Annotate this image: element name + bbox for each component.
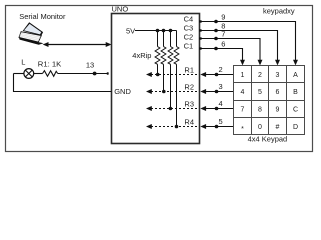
svg-text:UNO: UNO [112, 5, 129, 14]
svg-text:4x4 Keypad: 4x4 Keypad [248, 134, 288, 143]
svg-text:4: 4 [241, 89, 245, 96]
svg-text:#: # [276, 124, 280, 131]
wire: double arrow serial monitor to UNO [47, 44, 108, 46]
node R1 dashed row line [146, 65, 199, 77]
wire lamp to GND [14, 74, 112, 92]
svg-text:5: 5 [258, 89, 262, 96]
base lip [19, 38, 44, 45]
keyboard deck [19, 32, 41, 42]
wire keypad row 4 to R4 pin5 [200, 117, 233, 129]
wire resistor to pin 13 [58, 73, 109, 75]
svg-text:C1: C1 [184, 42, 194, 51]
resistor pack 4xRip: resistor 3 [168, 31, 173, 111]
UNO board box [112, 14, 200, 144]
svg-text:C3: C3 [184, 24, 194, 33]
svg-text:R2: R2 [184, 82, 194, 91]
svg-text:A: A [293, 72, 298, 79]
node R2 dashed row line [146, 82, 199, 94]
svg-text:C4: C4 [184, 15, 194, 24]
resistor pack 4xRip: resistor 1 [155, 31, 160, 77]
svg-text:3: 3 [219, 82, 223, 91]
junction dots on 5V rail [156, 29, 160, 33]
svg-text:R1: R1 [184, 65, 194, 74]
wire lamp to resistor [34, 73, 43, 75]
svg-text:6: 6 [221, 40, 225, 49]
svg-text:9: 9 [221, 13, 225, 22]
wire keypad row 1 to R1 pin2 [200, 65, 233, 77]
junction pin 13 [93, 72, 97, 76]
wire C1 pin6 to keypad column 1 [199, 40, 245, 66]
serial monitor laptop icon [19, 22, 44, 45]
svg-text:*: * [241, 126, 244, 133]
svg-text:keypadxy: keypadxy [263, 6, 295, 15]
svg-text:5V: 5V [126, 27, 135, 36]
wire C3 pin8 to keypad column 3 [199, 22, 280, 66]
svg-text:D: D [293, 124, 298, 131]
wire 5V rail [135, 30, 177, 32]
svg-text:7: 7 [241, 107, 245, 114]
svg-text:R1: 1K: R1: 1K [38, 60, 62, 69]
resistor R1 zigzag [43, 71, 58, 77]
svg-text:4: 4 [219, 99, 223, 108]
lid [23, 22, 43, 35]
wire lamp left [14, 73, 24, 75]
svg-text:Serial Monitor: Serial Monitor [19, 12, 66, 21]
wire keypad row 2 to R2 pin3 [200, 82, 233, 94]
svg-text:3: 3 [276, 72, 280, 79]
svg-text:8: 8 [258, 107, 262, 114]
svg-text:C2: C2 [184, 33, 194, 42]
svg-text:L: L [21, 58, 25, 67]
wire keypad row 3 to R3 pin4 [200, 99, 233, 111]
svg-text:B: B [293, 89, 298, 96]
wire C2 pin7 to keypad column 2 [199, 30, 263, 66]
resistor pack 4xRip: resistor 2 [161, 31, 166, 94]
svg-text:C: C [293, 107, 298, 114]
svg-text:7: 7 [221, 30, 225, 39]
svg-text:R3: R3 [184, 99, 194, 108]
svg-text:0: 0 [258, 124, 262, 131]
node R3 dashed row line [146, 99, 199, 111]
svg-text:2: 2 [258, 72, 262, 79]
border frame [6, 6, 313, 152]
svg-text:2: 2 [219, 65, 223, 74]
svg-text:5: 5 [219, 117, 223, 126]
lamp L [24, 69, 34, 79]
pin stubs C4-C1 on UNO right edge [199, 20, 202, 22]
svg-text:1: 1 [241, 72, 245, 79]
svg-text:GND: GND [114, 87, 131, 96]
wire C4 pin9 to keypad column 4 [199, 13, 298, 66]
svg-text:4xRip: 4xRip [132, 51, 151, 60]
svg-text:R4: R4 [184, 117, 194, 126]
keypad key labels [241, 72, 299, 133]
resistor pack 4xRip: resistor 4 [174, 31, 179, 129]
svg-text:13: 13 [86, 60, 94, 69]
svg-text:9: 9 [276, 107, 280, 114]
keypad 4x4 grid [234, 66, 305, 135]
svg-text:6: 6 [276, 89, 280, 96]
node R4 dashed row line [146, 117, 199, 129]
